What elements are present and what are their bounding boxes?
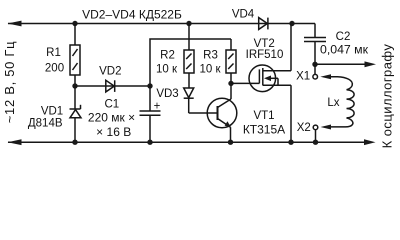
label R1 <box>46 47 61 59</box>
diode VD3 <box>184 88 194 113</box>
label X2 <box>297 122 311 134</box>
terminal X2 <box>313 125 318 142</box>
label R1 value <box>45 63 64 75</box>
label R2 value <box>156 63 178 75</box>
node R1/VD1/VD2 <box>72 83 77 88</box>
svg-text:R2: R2 <box>160 50 175 62</box>
label VT1 type <box>243 122 285 136</box>
resistor R2 <box>184 24 194 89</box>
svg-text:220 мк ×: 220 мк × <box>88 111 135 125</box>
label to oscilloscope <box>380 44 395 149</box>
label Lx <box>327 97 339 109</box>
arrow AC input bottom <box>8 139 22 145</box>
node R1 top <box>72 21 77 26</box>
node VD2/C1 <box>147 83 152 88</box>
svg-text:IRF510: IRF510 <box>246 49 284 61</box>
label diodes VD2-VD4 type <box>82 7 182 21</box>
inductor Lx <box>347 90 355 118</box>
probe arrow to X2 <box>321 118 353 130</box>
svg-text:~12 В, 50 Гц: ~12 В, 50 Гц <box>2 41 17 124</box>
svg-text:VD4: VD4 <box>232 9 255 21</box>
wire rectified rail <box>150 39 231 86</box>
node VD1 bottom <box>72 140 77 145</box>
svg-text:VD2–VD4 КД522Б: VD2–VD4 КД522Б <box>82 7 182 21</box>
label C2 value <box>320 43 369 57</box>
terminal X1 <box>313 64 318 79</box>
arrow to oscilloscope ground <box>364 139 376 145</box>
label R3 <box>203 50 218 62</box>
diode VD2 <box>106 80 115 92</box>
svg-text:VD2: VD2 <box>99 66 121 78</box>
label X1 <box>296 71 310 83</box>
svg-text:Lx: Lx <box>327 97 339 109</box>
wire to oscilloscope Y <box>315 61 376 67</box>
svg-text:10 к: 10 к <box>199 63 221 75</box>
svg-text:200: 200 <box>45 63 64 75</box>
svg-text:К осциллографу: К осциллографу <box>380 44 395 149</box>
svg-text:КТ315А: КТ315А <box>243 122 285 136</box>
zener diode VD1 <box>70 86 82 142</box>
svg-text:× 16 В: × 16 В <box>96 125 131 139</box>
label VD3 <box>156 88 178 100</box>
label AC input <box>2 41 17 124</box>
probe arrow to X1 <box>320 74 352 90</box>
label C1 polarity + <box>154 101 161 113</box>
node VT2 gate / R3 / VT1 collector <box>228 81 233 86</box>
svg-text:C2: C2 <box>336 31 351 43</box>
wire top bus <box>8 23 315 25</box>
label C1 voltage <box>96 125 131 139</box>
MOSFET VT2 <box>249 65 291 92</box>
svg-text:R1: R1 <box>46 47 61 59</box>
wire bottom bus <box>8 141 366 143</box>
node X2 bottom <box>313 140 318 145</box>
node VT1 emitter bottom <box>228 140 233 145</box>
svg-text:C1: C1 <box>104 98 119 110</box>
svg-text:X1: X1 <box>296 71 310 83</box>
label VD1 type <box>28 118 63 130</box>
svg-text:VT1: VT1 <box>253 110 274 122</box>
svg-text:VD1: VD1 <box>41 106 63 118</box>
diode VD4 <box>259 18 268 30</box>
wire VT2 gate <box>231 82 259 84</box>
svg-text:Д814В: Д814В <box>28 118 63 130</box>
svg-text:X2: X2 <box>297 122 311 134</box>
label VD2 <box>99 66 121 78</box>
capacitor C2 <box>304 38 326 65</box>
resistor R3 <box>226 39 236 99</box>
svg-text:10 к: 10 к <box>156 63 178 75</box>
label R2 <box>160 50 175 62</box>
label C2 <box>336 31 351 43</box>
label C1 <box>104 98 119 110</box>
wire VT2 source <box>290 85 292 142</box>
capacitor C1 <box>140 86 161 142</box>
label VT2 type <box>246 49 284 61</box>
label VD1 <box>41 106 63 118</box>
label VT2 <box>254 38 275 50</box>
wire VT2 drain <box>290 24 292 71</box>
transistor VT1 <box>207 98 237 142</box>
wire top-right corner to C2 <box>314 24 316 38</box>
node C1 bottom <box>147 140 152 145</box>
svg-text:VD3: VD3 <box>156 88 178 100</box>
label VT1 <box>253 110 274 122</box>
label C1 value <box>88 111 135 125</box>
node C2 / X1 / scope <box>312 62 317 67</box>
wire VD2 branch <box>75 85 150 87</box>
resistor R1 <box>70 24 80 87</box>
svg-text:R3: R3 <box>203 50 218 62</box>
node VT2 source bottom <box>288 140 293 145</box>
wire VT1 base <box>189 112 218 114</box>
svg-text:+: + <box>154 101 161 113</box>
label R3 value <box>199 63 221 75</box>
node VT2 drain top <box>289 21 294 26</box>
svg-text:0,047 мк: 0,047 мк <box>320 43 369 57</box>
node R2 top <box>186 21 191 26</box>
arrow AC input top <box>8 21 22 27</box>
label VD4 <box>232 9 255 21</box>
